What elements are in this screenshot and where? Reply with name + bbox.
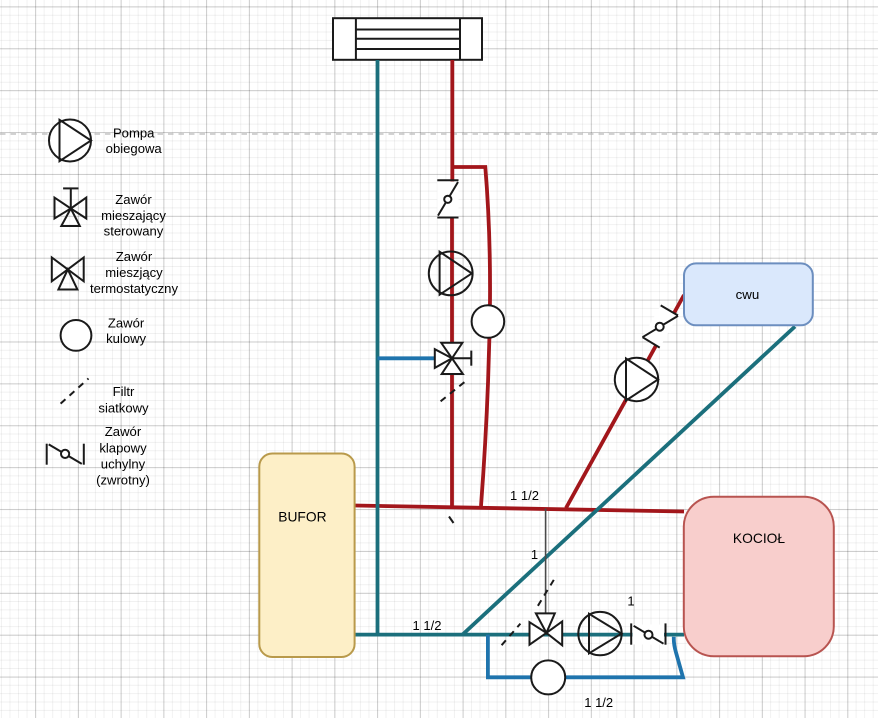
check valve legend symbol	[47, 444, 84, 465]
grey control line	[545, 509, 547, 614]
label 1 1/2 blue bypass	[584, 695, 613, 710]
pump legend symbol	[49, 120, 91, 162]
thermostatic mixing valve legend symbol	[52, 258, 84, 290]
thermostatic mixing valve legend label	[90, 249, 178, 296]
red diagonal pipe to cwu	[566, 295, 684, 508]
svg-text:1: 1	[627, 594, 634, 609]
svg-text:Zawór: Zawór	[115, 192, 152, 207]
red supply pipe from radiator	[450, 60, 454, 506]
label 1 1/2 teal header	[413, 618, 442, 633]
strainer on control line	[538, 580, 554, 606]
strainer on teal header	[502, 624, 521, 646]
page separator dashed line	[0, 133, 878, 135]
svg-text:cwu: cwu	[736, 287, 760, 302]
pump on red supply	[429, 252, 473, 296]
svg-text:siatkowy: siatkowy	[98, 400, 149, 415]
ball valve legend label	[106, 315, 146, 346]
pump legend label	[106, 125, 163, 156]
svg-text:Zawór: Zawór	[116, 249, 153, 264]
controlled mixing valve legend label	[101, 192, 166, 239]
blue pipe branch to mixing valve	[378, 356, 435, 360]
strainer on red below mixing valve	[441, 380, 467, 401]
teal return header BUFOR to KOCIOL	[355, 633, 684, 637]
blue bypass pipe bottom	[488, 635, 683, 678]
svg-text:1 1/2: 1 1/2	[510, 488, 539, 503]
label 1 check valve	[627, 594, 634, 609]
BUFOR tank	[259, 454, 354, 658]
svg-text:uchylny: uchylny	[101, 456, 146, 471]
svg-text:sterowany: sterowany	[104, 224, 164, 239]
small dash on red header	[449, 517, 454, 524]
radiator	[333, 18, 482, 60]
svg-text:mieszający: mieszający	[101, 208, 166, 223]
svg-text:BUFOR: BUFOR	[278, 509, 326, 524]
svg-text:Pompa: Pompa	[113, 125, 155, 140]
svg-text:1: 1	[531, 547, 538, 562]
svg-text:kulowy: kulowy	[106, 331, 146, 346]
svg-text:Filtr: Filtr	[113, 384, 135, 399]
controlled mixing valve legend symbol	[55, 188, 87, 226]
check valve legend label	[96, 424, 150, 487]
label 1 1/2 red header	[510, 488, 539, 503]
KOCIOL boiler	[684, 497, 834, 657]
ball valve legend symbol	[61, 320, 92, 351]
red header pipe BUFOR to KOCIOL	[355, 506, 684, 512]
check valve on red diagonal to cwu	[643, 305, 679, 347]
svg-text:KOCIOŁ: KOCIOŁ	[733, 531, 785, 546]
svg-text:klapowy: klapowy	[99, 441, 147, 456]
svg-text:Zawór: Zawór	[105, 424, 142, 439]
thermostatic mixing valve on teal header	[530, 613, 563, 645]
strainer filter legend symbol	[61, 379, 89, 404]
svg-text:(zwrotny): (zwrotny)	[96, 473, 150, 488]
svg-text:obiegowa: obiegowa	[106, 141, 163, 156]
teal return pipe vertical from radiator	[376, 60, 380, 637]
svg-text:1 1/2: 1 1/2	[584, 695, 613, 710]
svg-text:Zawór: Zawór	[108, 315, 145, 330]
pump on red diagonal to cwu	[615, 358, 658, 401]
label 1 control line	[531, 547, 538, 562]
strainer filter legend label	[98, 384, 149, 415]
ball valve on red branch	[472, 305, 505, 338]
red branch pipe to ball valve loop	[452, 167, 490, 506]
cwu tank	[684, 263, 813, 325]
svg-text:termostatyczny: termostatyczny	[90, 281, 178, 296]
svg-text:mieszjący: mieszjący	[105, 265, 163, 280]
check valve on teal header	[631, 623, 665, 644]
teal diagonal return from cwu	[463, 327, 796, 635]
ball valve on blue bypass	[531, 660, 565, 694]
controlled mixing valve on red supply	[435, 343, 472, 374]
check valve on red supply	[437, 180, 458, 217]
pump on teal header	[578, 612, 621, 655]
svg-text:1 1/2: 1 1/2	[413, 618, 442, 633]
